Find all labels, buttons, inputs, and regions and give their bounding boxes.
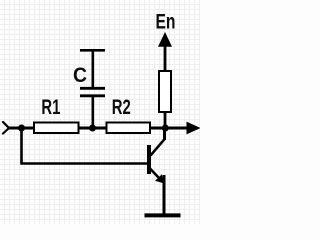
svg-text:C: C [73,63,87,87]
svg-text:R1: R1 [41,95,60,119]
svg-text:En: En [156,10,176,34]
svg-text:R2: R2 [112,95,131,119]
